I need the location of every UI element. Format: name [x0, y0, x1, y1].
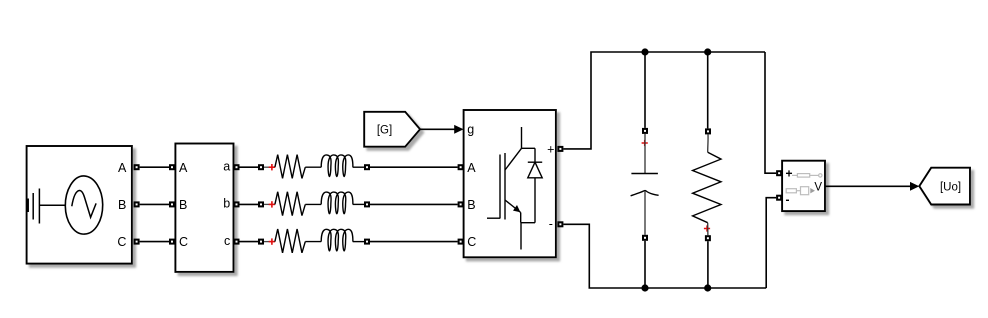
universal bridge block body [464, 110, 556, 257]
junction dot capacitor bottom [641, 284, 648, 291]
svg-text:A: A [118, 161, 127, 175]
RL branch phase A left port [258, 164, 264, 170]
RL branch phase C right port [364, 239, 370, 245]
load resistor zigzag [693, 152, 721, 222]
wire resistor to inductor phase C [305, 241, 321, 243]
wire resistor to inductor phase A [305, 166, 321, 168]
voltmeter internal arrowhead [810, 188, 815, 193]
three-phase source block body [27, 146, 132, 264]
capacitor bottom plate [631, 191, 659, 196]
resistor phase B [275, 192, 305, 216]
svg-text:B: B [467, 198, 475, 212]
source port A [134, 164, 140, 170]
wire ground to sine source [39, 204, 65, 206]
svg-text:a: a [223, 160, 230, 174]
sine waveform [72, 190, 96, 217]
RL branch phase B plus polarity mark [269, 201, 275, 207]
IGBT emitter arrowhead [513, 205, 520, 212]
wire RL branch A to bridge A [370, 166, 458, 168]
arrowhead into gate port [454, 125, 463, 134]
junction dot resistor top [704, 48, 711, 55]
diode symbol [521, 148, 542, 249]
wire bus to capacitor top port [644, 52, 646, 128]
svg-text:[G]: [G] [377, 124, 392, 136]
load resistor lead bottom [707, 223, 709, 236]
measurement input port C [169, 239, 175, 245]
RL branch phase C plus polarity mark [269, 238, 275, 244]
bridge input port C [458, 239, 464, 245]
Goto tag [Uo] [919, 168, 970, 205]
wire source A to measurement A [140, 166, 169, 168]
load resistor bottom port [705, 235, 711, 241]
RL branch phase A right port [364, 164, 370, 170]
source port B [134, 201, 140, 207]
svg-text:A: A [179, 161, 188, 175]
wire voltmeter to [Uo] [825, 185, 912, 187]
voltmeter plus port [776, 170, 782, 176]
wire source B to measurement B [140, 203, 169, 205]
load resistor lead top [707, 134, 709, 152]
source port C [134, 239, 140, 245]
capacitor top port [642, 128, 648, 134]
wire stub port to plus phase B [264, 203, 269, 205]
wire inductor to right port phase A [353, 166, 364, 168]
svg-text:B: B [118, 198, 126, 212]
measurement output port c [234, 239, 240, 245]
wire RL branch B to bridge B [370, 203, 458, 205]
measurement output port a [234, 164, 240, 170]
voltmeter minus port [776, 195, 782, 201]
svg-text:C: C [467, 235, 476, 249]
resistor phase C [275, 229, 305, 253]
inductor phase A [321, 155, 353, 177]
From tag [G] [364, 112, 420, 147]
bridge input port A [458, 164, 464, 170]
svg-text:g: g [467, 123, 474, 137]
wire DC bus to voltmeter minus [766, 198, 776, 288]
svg-text:c: c [224, 234, 230, 248]
IGBT symbol [487, 127, 522, 223]
wire RL branch C to bridge C [370, 241, 458, 243]
inductor phase B [321, 192, 353, 214]
wire measurement c to RL branch C [240, 241, 259, 243]
svg-text:-: - [786, 192, 790, 206]
bridge input port B [458, 201, 464, 207]
arrowhead into [Uo] [910, 182, 919, 191]
junction dot resistor bottom [704, 284, 711, 291]
wire DC bus to voltmeter plus [765, 52, 776, 173]
wire inductor to right port phase B [353, 203, 364, 205]
RL branch phase B right port [364, 201, 370, 207]
wire stub port to plus phase A [264, 166, 269, 168]
wire inductor to right port phase C [353, 241, 364, 243]
load resistor top port [705, 128, 711, 134]
svg-text:C: C [117, 235, 126, 249]
wire capacitor bottom to bus [644, 241, 646, 288]
sine source circle [65, 176, 102, 234]
junction dot capacitor top [641, 48, 648, 55]
svg-text:+: + [786, 167, 793, 181]
svg-text:C: C [179, 235, 188, 249]
RL branch phase C left port [258, 239, 264, 245]
svg-text:[Uo]: [Uo] [940, 181, 961, 193]
three-phase V-I measurement block body [175, 144, 233, 272]
wire resistor to inductor phase B [305, 203, 321, 205]
wire stub port to plus phase C [264, 241, 269, 243]
RL branch phase A plus polarity mark [269, 164, 275, 170]
bridge output port plus [557, 146, 563, 152]
measurement output port b [234, 201, 240, 207]
capacitor plus polarity mark [642, 140, 648, 146]
svg-text:+: + [547, 142, 554, 156]
svg-text:b: b [223, 197, 230, 211]
capacitor C lead top [644, 134, 646, 174]
measurement input port B [169, 201, 175, 207]
ground symbol [28, 189, 39, 224]
RL branch phase B left port [258, 201, 264, 207]
wire bus to load resistor top port [707, 52, 709, 128]
wire measurement a to RL branch A [240, 166, 259, 168]
load resistor plus polarity mark [704, 225, 710, 231]
measurement input port A [169, 164, 175, 170]
wire source C to measurement C [140, 241, 169, 243]
wire measurement b to RL branch B [240, 203, 259, 205]
svg-text:A: A [467, 161, 476, 175]
wire load resistor bottom to bus [707, 241, 709, 288]
resistor phase A [275, 155, 305, 179]
wire bridge plus to DC bus top [563, 52, 765, 149]
voltage measurement block body [782, 161, 825, 211]
wire [G] to bridge gate [420, 128, 455, 130]
svg-text:-: - [549, 217, 553, 231]
voltmeter internal icon [786, 174, 822, 195]
capacitor bottom port [642, 235, 648, 241]
capacitor C lead bottom [644, 191, 646, 235]
wire bridge minus to DC bus bottom [563, 224, 766, 288]
svg-text:V: V [814, 181, 822, 193]
inductor phase C [321, 229, 353, 251]
bridge output port minus [557, 221, 563, 227]
capacitor top plate [631, 173, 658, 175]
svg-text:B: B [179, 198, 187, 212]
